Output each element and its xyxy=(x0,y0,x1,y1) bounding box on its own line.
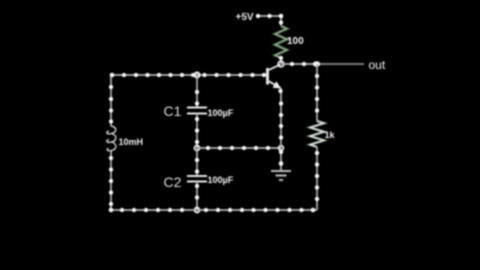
current dots right wire xyxy=(315,74,319,201)
transistor Q1 xyxy=(268,65,282,89)
ground xyxy=(271,171,291,180)
resistor R2 1k xyxy=(310,121,324,147)
current dots top wire xyxy=(110,73,266,78)
capacitor C1 xyxy=(187,108,207,114)
node top-C1 xyxy=(195,73,200,78)
wire out xyxy=(281,63,364,65)
svg-text:100µF: 100µF xyxy=(208,108,234,118)
node emitter junction xyxy=(279,146,284,151)
resistor R1 100 xyxy=(275,26,287,58)
wire ground lead xyxy=(280,148,282,170)
svg-text:100: 100 xyxy=(287,36,304,47)
wire C2 upper lead xyxy=(196,148,198,176)
svg-text:C2: C2 xyxy=(164,174,182,190)
svg-text:out: out xyxy=(369,58,386,72)
node bottom-C2 xyxy=(195,208,200,213)
current dots out wire xyxy=(290,62,306,66)
wire C1 upper lead xyxy=(196,75,198,107)
inductor L1 10mH xyxy=(107,126,116,152)
wire collector stub xyxy=(280,58,282,64)
current dots mid wire xyxy=(206,146,270,150)
current dots bottom wire xyxy=(109,208,316,213)
current dots left wire xyxy=(109,85,113,206)
wire C2 lower lead xyxy=(196,182,198,211)
wire +5V supply lead xyxy=(256,16,281,26)
wire right vertical bottom xyxy=(316,147,318,210)
svg-text:10mH: 10mH xyxy=(119,137,144,147)
svg-text:1k: 1k xyxy=(325,130,336,140)
svg-text:C1: C1 xyxy=(164,103,182,119)
node junction out/1k xyxy=(313,61,320,67)
capacitor C2 xyxy=(187,176,207,182)
wire emitter vertical xyxy=(280,88,282,148)
current dots capacitor branch xyxy=(195,90,199,200)
wire mid horizontal xyxy=(197,147,281,149)
current dots supply wire xyxy=(256,14,283,60)
node cap midpoint xyxy=(194,145,199,150)
svg-text:+5V: +5V xyxy=(236,12,254,23)
svg-text:100µF: 100µF xyxy=(208,175,234,185)
node collector xyxy=(278,61,284,67)
wire C1 lower lead xyxy=(196,114,198,149)
wire left vertical upper xyxy=(110,75,112,126)
wire base / top xyxy=(111,74,266,76)
wire right vertical top xyxy=(316,64,318,121)
current dots emitter wire xyxy=(278,89,283,166)
wire left vertical lower xyxy=(110,152,112,210)
wire bottom xyxy=(111,209,317,211)
